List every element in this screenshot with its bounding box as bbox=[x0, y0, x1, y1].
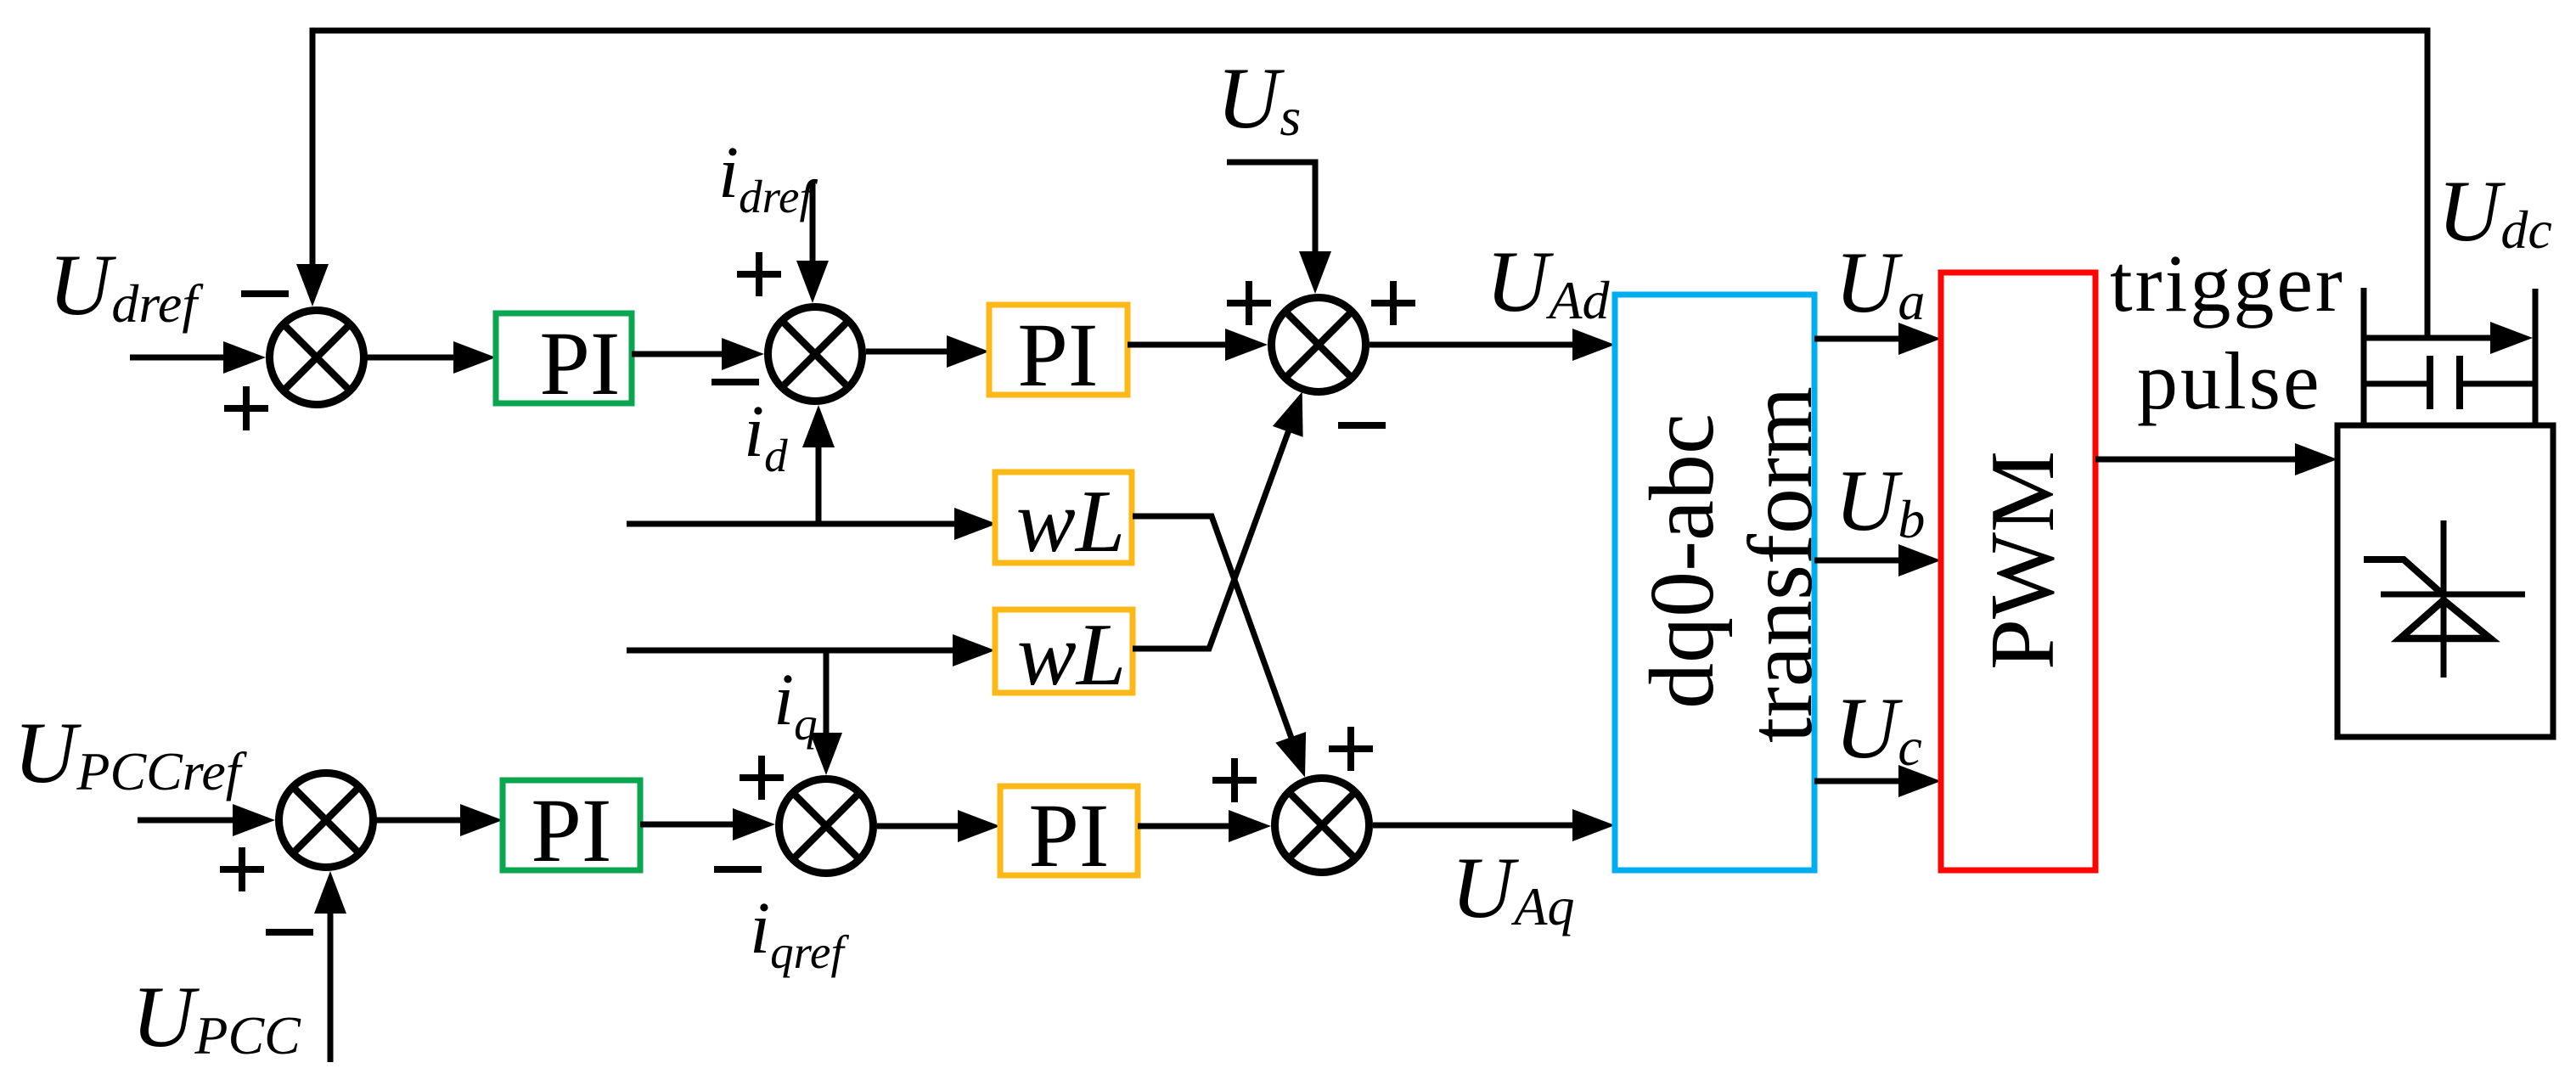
svg-text:pulse: pulse bbox=[2137, 335, 2322, 426]
svg-text:idref: idref bbox=[718, 131, 818, 222]
svg-text:PI: PI bbox=[1017, 306, 1098, 406]
wire Ub to PWM bbox=[1814, 544, 1941, 576]
svg-text:iq: iq bbox=[773, 658, 818, 750]
block U7 dq0-abc transform bbox=[1615, 295, 1814, 870]
svg-text:UPCCref: UPCCref bbox=[14, 705, 248, 801]
wire Us input bbox=[1227, 162, 1331, 294]
minus sign at S6 bottom input bbox=[266, 929, 313, 936]
wire PI U5 to S4 (iqref) bbox=[640, 808, 775, 841]
minus sign at S3 bottom input bbox=[1338, 422, 1386, 429]
summing junction S5 (iq PI + wL*id) bbox=[1275, 779, 1370, 873]
minus sign at S4 bottom-left bbox=[714, 866, 762, 873]
svg-text:wL: wL bbox=[1016, 471, 1125, 571]
wire Uc to PWM bbox=[1814, 765, 1941, 797]
wire dc bus right rail bbox=[2533, 289, 2539, 426]
svg-text:dq0-abc: dq0-abc bbox=[1632, 413, 1733, 709]
svg-text:UAd: UAd bbox=[1486, 233, 1610, 330]
block wL U3 (decoupling gain) bbox=[995, 472, 1132, 563]
svg-text:PI: PI bbox=[539, 314, 620, 414]
wire Udc measurement tap with arrow bbox=[2364, 322, 2533, 354]
summing junction S4 (iqref - iq) bbox=[779, 779, 874, 874]
wire PI U2 to S3 bbox=[1128, 329, 1268, 361]
plus sign at S2 top input bbox=[737, 252, 781, 296]
summing junction S2 (idref - id) bbox=[768, 307, 863, 402]
minus sign at S2 bottom input bbox=[711, 379, 759, 385]
wire PWM trigger pulse output to converter bbox=[2095, 443, 2337, 475]
thyristor Q1 symbol inside converter bbox=[2364, 520, 2525, 678]
wire Ua to PWM bbox=[1814, 323, 1941, 355]
wire measured id line into wL block bbox=[627, 508, 997, 540]
wire PI U6 to S5 bbox=[1138, 810, 1271, 842]
wire dc bus left rail bbox=[2361, 288, 2367, 426]
label trigger pulse bbox=[2110, 238, 2345, 426]
summing junction S6 (UPCCref - UPCC) bbox=[279, 773, 374, 868]
wire wL U3 output cross-coupling to S5 bbox=[1133, 516, 1306, 778]
wire id feedback into S2 bbox=[802, 405, 835, 524]
svg-text:id: id bbox=[744, 390, 788, 481]
label dq0-abc transform bbox=[1632, 386, 1831, 743]
plus sign at S1 left input bbox=[224, 386, 268, 430]
wire idref input bbox=[796, 181, 829, 303]
wire PI U1 to S2 bbox=[632, 338, 764, 370]
svg-text:Ua: Ua bbox=[1835, 234, 1925, 331]
summing junction S1 (Udref - Udc) bbox=[270, 311, 364, 405]
svg-text:trigger: trigger bbox=[2110, 238, 2345, 329]
svg-text:iqref: iqref bbox=[750, 886, 849, 978]
plus sign at S5 left input bbox=[1212, 758, 1257, 802]
wire S3 output UAd to dq0-abc transform bbox=[1370, 329, 1615, 361]
block PI U1 (dc voltage regulator) bbox=[496, 313, 632, 403]
block PI U6 (q-axis current regulator) bbox=[1000, 786, 1138, 875]
plus sign at S3 left input bbox=[1227, 281, 1271, 325]
wire S4 to PI current regulator U6 bbox=[877, 810, 1000, 842]
wire UPCCref input bbox=[138, 804, 275, 836]
plus sign at S4 left input bbox=[740, 756, 784, 800]
wire Udref input bbox=[130, 341, 266, 374]
block U8 PWM modulator bbox=[1941, 273, 2095, 870]
block PI U5 (ac voltage regulator) bbox=[503, 780, 640, 870]
converter block (VSC valve) bbox=[2337, 425, 2553, 737]
wire S5 output UAq to dq0-abc transform bbox=[1373, 809, 1615, 841]
svg-text:transform: transform bbox=[1730, 386, 1831, 743]
wire UPCC input from below bbox=[314, 871, 346, 1062]
summing junction S3 (Us + PI - wL*iq) bbox=[1272, 298, 1366, 392]
block wL U4 (decoupling gain) bbox=[995, 610, 1133, 693]
svg-text:wL: wL bbox=[1017, 604, 1126, 704]
wire iq tap down into S4 bbox=[810, 650, 842, 775]
svg-text:Udc: Udc bbox=[2438, 163, 2552, 260]
plus sign at S5 top input bbox=[1329, 727, 1373, 771]
svg-text:Uc: Uc bbox=[1835, 680, 1922, 777]
block PI U2 (d-axis current regulator) bbox=[989, 305, 1128, 395]
svg-text:PI: PI bbox=[531, 781, 611, 881]
svg-text:Ub: Ub bbox=[1835, 453, 1925, 549]
wire S2 to PI current regulator U2 bbox=[866, 335, 989, 368]
svg-text:PWM: PWM bbox=[1972, 451, 2073, 670]
svg-text:Us: Us bbox=[1217, 50, 1301, 147]
svg-text:UAq: UAq bbox=[1451, 840, 1574, 936]
plus sign at S3 top input bbox=[1371, 281, 1415, 325]
wire S6 to PI voltage regulator U5 bbox=[373, 804, 503, 836]
plus sign at S6 left input bbox=[220, 847, 264, 891]
wire DC-link voltage feedback (Udc to S1) bbox=[296, 28, 2431, 339]
capacitor C1 dc-link bbox=[2364, 356, 2535, 409]
wire S1 to PI voltage regulator U1 bbox=[363, 341, 496, 374]
svg-text:UPCC: UPCC bbox=[132, 969, 301, 1066]
svg-text:PI: PI bbox=[1028, 786, 1109, 886]
wire measured iq line into wL block bbox=[627, 634, 995, 666]
svg-text:Udref: Udref bbox=[48, 237, 204, 334]
wire wL U4 output cross-coupling to S3 bbox=[1133, 391, 1303, 649]
minus sign at S1 top input bbox=[241, 290, 289, 297]
